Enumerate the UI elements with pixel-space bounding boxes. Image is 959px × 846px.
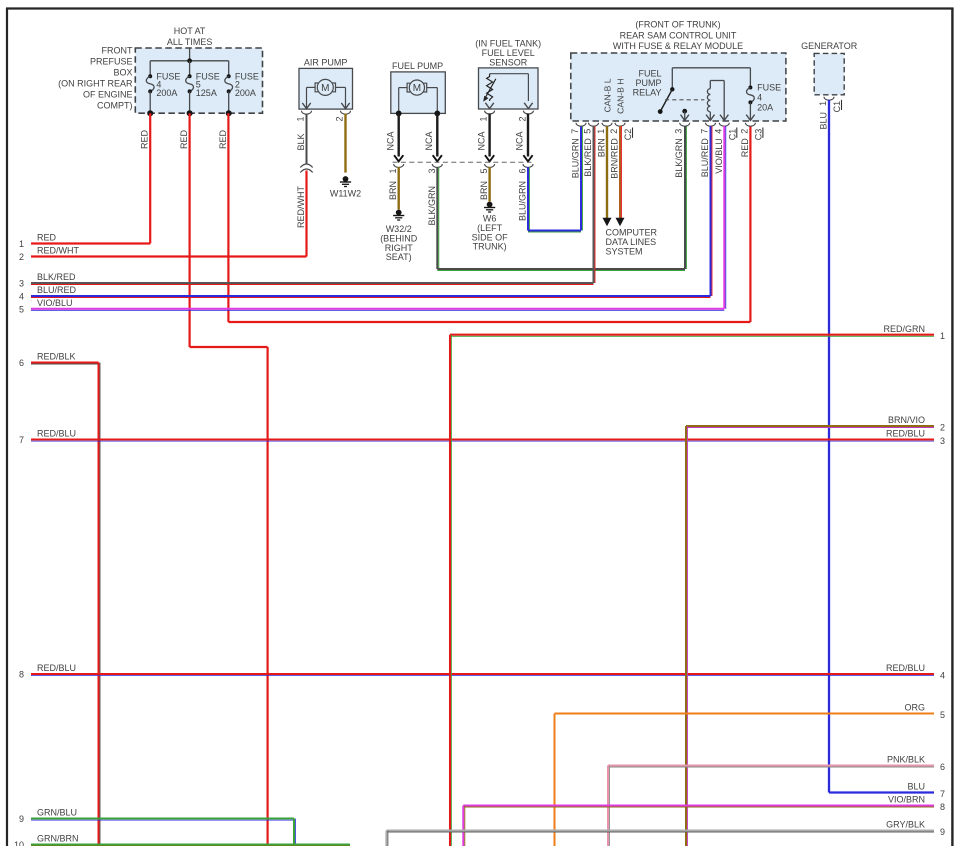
svg-text:RED: RED [740, 138, 750, 158]
svg-text:PUMP: PUMP [635, 78, 661, 88]
svg-text:SENSOR: SENSOR [489, 58, 528, 68]
svg-text:200A: 200A [156, 88, 177, 98]
svg-text:VIO/BLU: VIO/BLU [714, 138, 724, 174]
svg-text:M: M [413, 83, 421, 94]
svg-text:200A: 200A [235, 88, 256, 98]
svg-text:GRN/BRN: GRN/BRN [37, 834, 79, 844]
svg-text:BLU/GRN: BLU/GRN [518, 181, 528, 221]
svg-text:BOX: BOX [113, 68, 132, 78]
svg-text:COMPUTER: COMPUTER [606, 228, 658, 238]
svg-text:2: 2 [335, 117, 345, 122]
svg-text:1: 1 [940, 331, 945, 341]
svg-text:(ON RIGHT REAR: (ON RIGHT REAR [58, 79, 133, 89]
svg-text:CAN-B L: CAN-B L [603, 78, 613, 112]
svg-text:COMPT): COMPT) [97, 101, 133, 111]
svg-text:7: 7 [940, 789, 945, 799]
svg-text:BLU/RED: BLU/RED [37, 285, 77, 295]
svg-text:2: 2 [940, 422, 945, 432]
svg-text:9: 9 [19, 814, 24, 824]
svg-text:BLK/GRN: BLK/GRN [427, 186, 437, 226]
svg-text:TRUNK): TRUNK) [473, 242, 507, 252]
svg-text:BLK/GRN: BLK/GRN [674, 138, 684, 178]
svg-text:REAR SAM CONTROL UNIT: REAR SAM CONTROL UNIT [620, 31, 737, 41]
svg-text:4: 4 [940, 670, 945, 680]
svg-text:SEAT): SEAT) [386, 252, 412, 262]
svg-text:BRN/RED: BRN/RED [610, 138, 620, 179]
svg-text:5: 5 [19, 304, 24, 314]
svg-text:HOT AT: HOT AT [174, 26, 206, 36]
svg-text:6: 6 [518, 169, 528, 174]
svg-text:NCA: NCA [385, 132, 395, 151]
svg-text:1: 1 [19, 239, 24, 249]
svg-text:C1: C1 [832, 101, 842, 113]
svg-text:RED/WHT: RED/WHT [296, 186, 306, 228]
svg-text:GENERATOR: GENERATOR [801, 41, 858, 51]
svg-text:VIO/BLU: VIO/BLU [37, 298, 73, 308]
svg-text:RED/GRN: RED/GRN [883, 324, 925, 334]
svg-text:6: 6 [940, 762, 945, 772]
svg-text:W11W2: W11W2 [330, 189, 361, 199]
svg-text:FUEL: FUEL [638, 68, 661, 78]
svg-text:ORG: ORG [904, 703, 925, 713]
svg-text:7: 7 [700, 129, 710, 134]
svg-text:NCA: NCA [515, 132, 525, 151]
svg-text:1: 1 [818, 101, 828, 106]
svg-text:5: 5 [583, 129, 593, 134]
svg-text:GRN/BLU: GRN/BLU [37, 808, 77, 818]
svg-text:3: 3 [940, 436, 945, 446]
svg-text:BLU/GRN: BLU/GRN [571, 138, 581, 178]
svg-text:3: 3 [674, 129, 684, 134]
svg-text:BLK/RED: BLK/RED [37, 272, 76, 282]
svg-text:FUSE: FUSE [757, 82, 781, 92]
svg-text:3: 3 [427, 169, 437, 174]
svg-text:8: 8 [19, 670, 24, 680]
svg-text:BLU: BLU [907, 782, 925, 792]
svg-text:5: 5 [479, 169, 489, 174]
svg-text:BRN: BRN [479, 181, 489, 200]
svg-text:FUEL PUMP: FUEL PUMP [392, 61, 443, 71]
svg-text:M: M [321, 83, 329, 94]
svg-text:NCA: NCA [476, 132, 486, 151]
svg-text:CAN-B H: CAN-B H [616, 79, 626, 114]
svg-text:2: 2 [517, 117, 527, 122]
svg-text:RED/BLU: RED/BLU [886, 429, 925, 439]
svg-text:RED/BLU: RED/BLU [37, 429, 76, 439]
svg-text:BLK/RED: BLK/RED [583, 138, 593, 177]
svg-text:PNK/BLK: PNK/BLK [887, 755, 925, 765]
svg-text:9: 9 [940, 827, 945, 837]
svg-text:BLU: BLU [819, 112, 829, 130]
svg-text:10: 10 [14, 840, 24, 846]
svg-text:4: 4 [757, 92, 762, 102]
svg-text:7: 7 [19, 435, 24, 445]
svg-text:OF ENGINE: OF ENGINE [83, 90, 133, 100]
svg-text:5: 5 [940, 710, 945, 720]
svg-text:20A: 20A [757, 102, 773, 112]
svg-text:AIR PUMP: AIR PUMP [304, 58, 348, 68]
svg-text:(FRONT OF TRUNK): (FRONT OF TRUNK) [635, 20, 720, 30]
svg-text:DATA LINES: DATA LINES [606, 237, 657, 247]
svg-text:RED: RED [179, 130, 189, 150]
svg-text:BRN/VIO: BRN/VIO [888, 415, 925, 425]
svg-text:NCA: NCA [424, 132, 434, 151]
svg-text:(IN FUEL TANK): (IN FUEL TANK) [475, 39, 541, 49]
svg-text:RED/BLU: RED/BLU [886, 663, 925, 673]
svg-text:ALL TIMES: ALL TIMES [167, 37, 213, 47]
svg-text:WITH FUSE & RELAY MODULE: WITH FUSE & RELAY MODULE [613, 41, 743, 51]
svg-text:SYSTEM: SYSTEM [606, 247, 643, 257]
svg-text:1: 1 [479, 117, 489, 122]
svg-text:RED: RED [218, 130, 228, 150]
svg-text:8: 8 [940, 802, 945, 812]
svg-text:RED: RED [37, 233, 57, 243]
svg-text:RED/BLU: RED/BLU [37, 663, 76, 673]
svg-text:BRN: BRN [597, 138, 607, 157]
svg-text:RELAY: RELAY [633, 87, 662, 97]
svg-text:VIO/BRN: VIO/BRN [888, 795, 925, 805]
svg-text:C1: C1 [727, 129, 737, 141]
svg-text:RED: RED [140, 130, 150, 150]
svg-text:FUEL LEVEL: FUEL LEVEL [482, 48, 535, 58]
svg-text:PREFUSE: PREFUSE [90, 57, 133, 67]
svg-text:7: 7 [570, 129, 580, 134]
svg-text:BRN: BRN [388, 181, 398, 200]
svg-text:RED/BLK: RED/BLK [37, 352, 76, 362]
svg-text:C3: C3 [753, 129, 763, 141]
svg-text:BLU/RED: BLU/RED [700, 138, 710, 178]
svg-text:2: 2 [609, 129, 619, 134]
svg-text:C2: C2 [623, 129, 633, 141]
svg-text:4: 4 [713, 129, 723, 134]
svg-text:BLK: BLK [296, 134, 306, 151]
svg-text:2: 2 [739, 129, 749, 134]
svg-text:6: 6 [19, 358, 24, 368]
svg-text:1: 1 [596, 129, 606, 134]
svg-text:1: 1 [296, 117, 306, 122]
svg-text:2: 2 [19, 252, 24, 262]
svg-text:RED/WHT: RED/WHT [37, 246, 79, 256]
svg-text:3: 3 [19, 279, 24, 289]
svg-text:1: 1 [388, 169, 398, 174]
svg-text:GRY/BLK: GRY/BLK [886, 820, 925, 830]
svg-text:FRONT: FRONT [102, 46, 133, 56]
svg-text:125A: 125A [196, 88, 217, 98]
svg-text:4: 4 [19, 292, 24, 302]
